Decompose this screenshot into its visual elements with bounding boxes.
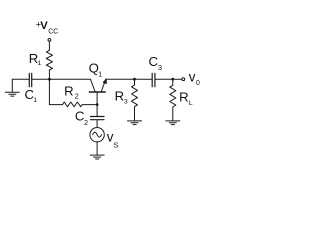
- label R1: [29, 51, 42, 67]
- resistor R2: [63, 102, 98, 107]
- svg-text:L: L: [189, 100, 193, 107]
- label Q1: [89, 61, 103, 79]
- label R3: [115, 89, 128, 106]
- label R2: [64, 84, 79, 101]
- ground (VS): [90, 155, 104, 159]
- label vS: [107, 130, 119, 150]
- supply terminal +VCC: [48, 39, 51, 42]
- svg-text:V: V: [40, 20, 48, 32]
- svg-text:0: 0: [196, 78, 200, 87]
- svg-text:v: v: [189, 69, 196, 84]
- svg-text:1: 1: [38, 60, 42, 67]
- label C2: [75, 109, 88, 128]
- transistor Q1: [89, 79, 106, 104]
- svg-text:1: 1: [98, 70, 102, 79]
- wire source to ground: [96, 142, 98, 155]
- svg-text:S: S: [113, 141, 118, 150]
- ground (R3): [128, 121, 142, 125]
- wire C2 to source: [96, 120, 98, 127]
- svg-text:3: 3: [158, 63, 162, 72]
- label vo: [189, 69, 200, 87]
- wire node B to C2: [96, 105, 98, 117]
- label C1: [25, 87, 38, 104]
- resistor R3: [132, 79, 138, 121]
- svg-text:C: C: [149, 54, 159, 69]
- node C (R3 junction): [133, 78, 136, 81]
- svg-text:R: R: [179, 90, 189, 105]
- ground (C1): [5, 92, 19, 96]
- source VS: [90, 128, 104, 142]
- output terminal vo: [182, 78, 185, 81]
- node B (R2/C2/base junction): [96, 103, 99, 106]
- wire node A to collector: [49, 78, 90, 80]
- capacitor C3: [152, 73, 155, 86]
- svg-text:2: 2: [84, 118, 88, 127]
- svg-text:R: R: [64, 84, 74, 99]
- capacitor C2: [91, 117, 105, 120]
- svg-text:R: R: [115, 89, 125, 104]
- svg-text:2: 2: [75, 92, 79, 101]
- wire C1 to ground: [12, 79, 29, 92]
- wire emitter to C3: [106, 78, 152, 80]
- label C3: [149, 54, 163, 72]
- resistor R1: [46, 50, 52, 79]
- wire node A to C1: [32, 78, 49, 80]
- svg-text:3: 3: [124, 99, 128, 106]
- capacitor C1: [29, 73, 31, 86]
- ground (RL): [166, 121, 180, 125]
- node A (R1/C1/collector junction): [48, 78, 51, 81]
- svg-text:1: 1: [33, 97, 37, 104]
- svg-text:CC: CC: [48, 29, 58, 36]
- wire C3 to output: [155, 78, 182, 80]
- wire VCC to R1: [48, 41, 50, 50]
- label +VCC: [36, 20, 59, 36]
- resistor RL: [170, 79, 176, 121]
- node D (RL junction): [171, 78, 174, 81]
- label RL: [179, 90, 193, 107]
- wire node A down to R2: [49, 79, 62, 104]
